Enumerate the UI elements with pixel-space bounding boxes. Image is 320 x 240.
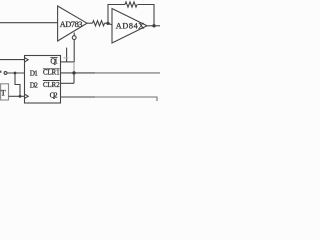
svg-text:AD783: AD783 — [60, 20, 83, 29]
svg-text:T: T — [1, 88, 6, 97]
svg-text:AD84X: AD84X — [116, 21, 144, 30]
svg-text:D2: D2 — [30, 81, 38, 89]
svg-text:D1: D1 — [30, 70, 38, 78]
svg-text:Q2: Q2 — [50, 91, 58, 100]
svg-text:CLR2: CLR2 — [43, 82, 60, 89]
svg-text:CLR1: CLR1 — [43, 70, 60, 77]
